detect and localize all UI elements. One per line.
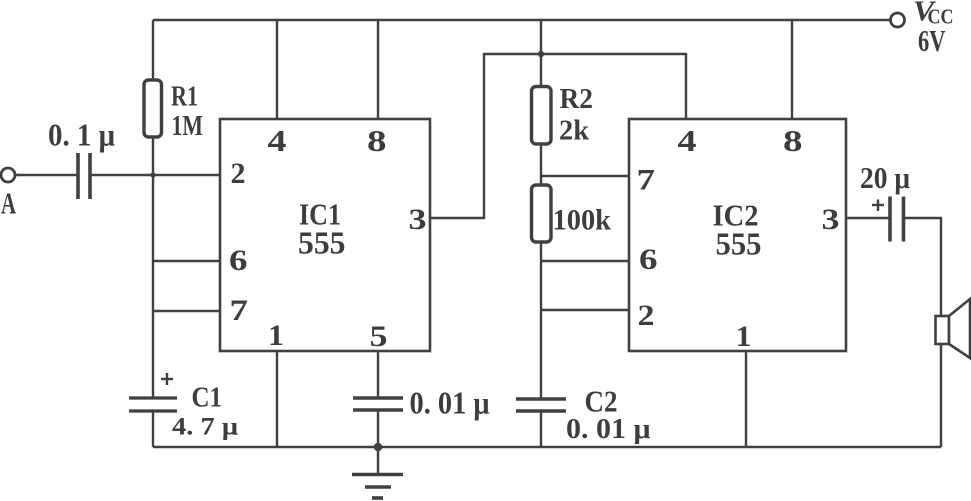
svg-text:1: 1 — [736, 320, 752, 353]
wire left vertical rail x=153 — [152, 20, 154, 398]
svg-text:100k: 100k — [553, 204, 612, 237]
wire IC1 pin 1 to ground rail — [276, 351, 278, 447]
junction at x153 y175 — [150, 172, 155, 177]
wire IC2 pin 6 — [541, 260, 629, 262]
wire IC2 pin 3 to cap 20u — [846, 217, 890, 219]
wire below C1 — [152, 411, 154, 447]
svg-text:3: 3 — [409, 203, 427, 236]
svg-text:7: 7 — [637, 164, 656, 197]
C1 plus sign — [161, 378, 173, 380]
wire IC2 pin 8 to rail — [791, 20, 793, 119]
svg-text:0. 01 μ: 0. 01 μ — [566, 414, 651, 445]
svg-text:555: 555 — [716, 226, 762, 262]
wire 100k to C2 — [540, 242, 542, 399]
svg-text:4. 7 μ: 4. 7 μ — [172, 414, 238, 441]
capacitor C2 — [516, 397, 566, 400]
wire IC2 pin 1 to ground rail — [745, 351, 747, 447]
capacitor 0.1u input — [76, 153, 80, 199]
capacitor 20u electrolytic — [888, 197, 892, 242]
resistor R2 — [532, 87, 552, 145]
wire middle vertical x=541 top — [540, 20, 542, 87]
svg-text:8: 8 — [367, 123, 387, 158]
svg-text:555: 555 — [298, 225, 346, 261]
svg-text:3: 3 — [822, 203, 840, 236]
svg-text:4: 4 — [268, 123, 287, 158]
wire cap to rail — [377, 410, 379, 447]
svg-text:C1: C1 — [192, 382, 223, 414]
speaker — [936, 316, 950, 344]
wire R2 to 100k — [540, 144, 542, 185]
svg-text:0. 1 μ: 0. 1 μ — [48, 117, 115, 153]
wire bottom ground rail — [153, 446, 941, 448]
wire IC1 pin 8 to rail — [377, 20, 379, 119]
svg-text:2: 2 — [231, 157, 246, 190]
wire cap 20u to speaker — [904, 218, 942, 447]
wire input to capacitor — [15, 174, 77, 176]
capacitor 0.01u at pin 5 — [353, 396, 403, 399]
wire IC1 pin 5 to cap — [377, 351, 379, 398]
junction at x541 y54 — [538, 51, 544, 57]
svg-text:1: 1 — [268, 319, 284, 352]
svg-text:6: 6 — [229, 244, 248, 277]
capacitor C1 electrolytic — [129, 396, 177, 399]
wire IC1 pin 7 — [153, 310, 220, 312]
wire IC1 pin 4 to rail — [276, 20, 278, 119]
svg-text:1M: 1M — [172, 110, 204, 142]
node A input terminal — [1, 168, 15, 182]
20u plus sign — [872, 204, 884, 206]
svg-text:7: 7 — [230, 294, 249, 327]
op-amp IC1 555 box — [220, 119, 430, 351]
svg-text:2: 2 — [638, 299, 655, 332]
ground — [377, 447, 379, 474]
junction ground node — [374, 443, 383, 452]
svg-text:6V: 6V — [918, 23, 946, 58]
wire IC1 pin 6 — [153, 260, 220, 262]
VCC terminal — [891, 13, 905, 27]
svg-text:4: 4 — [678, 123, 697, 158]
wire IC2 pin 7 — [541, 175, 629, 177]
svg-text:8: 8 — [783, 123, 803, 158]
svg-text:A: A — [1, 186, 16, 221]
wire C2 to rail — [540, 411, 542, 447]
svg-text:0. 01 μ: 0. 01 μ — [410, 385, 490, 421]
wire VCC top rail — [153, 19, 890, 21]
svg-text:R2: R2 — [560, 83, 594, 115]
op-amp IC2 555 box — [629, 119, 846, 351]
resistor 100k — [532, 185, 552, 242]
svg-text:20 μ: 20 μ — [860, 160, 910, 195]
wire IC2 pin 2 — [541, 309, 629, 311]
svg-text:2k: 2k — [559, 115, 590, 147]
wire capacitor to IC1 pin 2 — [90, 174, 220, 176]
svg-text:5: 5 — [370, 320, 388, 353]
svg-text:6: 6 — [639, 243, 658, 276]
wire IC1 pin 3 to IC2 pin 4 — [430, 54, 686, 218]
resistor R1 — [144, 80, 162, 137]
svg-text:R1: R1 — [171, 81, 198, 113]
